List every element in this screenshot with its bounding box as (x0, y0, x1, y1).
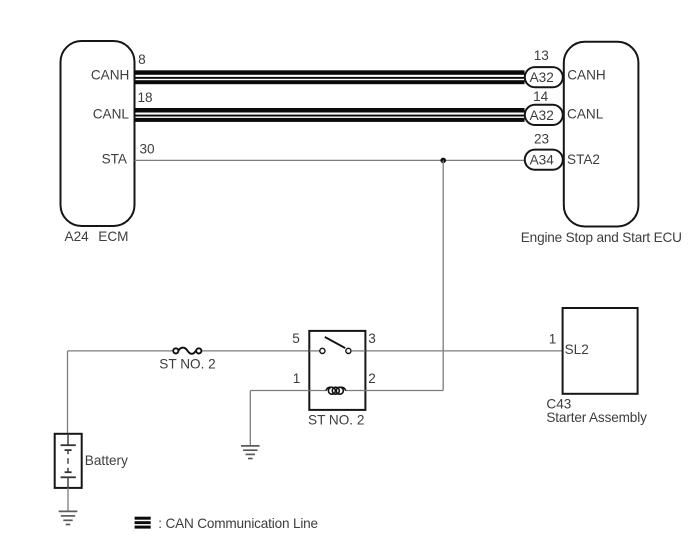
relay pin number 3 (368, 331, 376, 346)
legend text CAN Communication Line (158, 516, 318, 531)
svg-text:13: 13 (534, 48, 549, 63)
wire CANH (CAN communication line, triple stripe) (135, 70, 525, 84)
starter assembly box C43 (563, 308, 638, 394)
relay pin number 5 (292, 331, 300, 346)
connector oval A32 (CANL) (525, 105, 563, 125)
ground (relay coil) (241, 446, 260, 459)
pin label CANL (ECU) (567, 106, 604, 121)
relay switch wire stubs inside box (309, 350, 365, 352)
pin label STA (ECM) (102, 152, 128, 167)
svg-text:STA2: STA2 (567, 152, 600, 167)
pin number 1 (SL2) (549, 332, 557, 347)
relay pin number 1 (293, 371, 301, 386)
pin number 23 (534, 132, 549, 147)
wire battery to ground (67, 488, 69, 512)
ground (battery) (59, 511, 78, 524)
relay switch blade (open) (325, 337, 345, 348)
label ST NO. 2 (relay) (308, 413, 364, 428)
wire battery feed to fuse (horizontal) (68, 350, 175, 352)
label ECM (98, 229, 128, 244)
ECM box A24 (61, 41, 135, 226)
Engine Stop and Start ECU box (564, 42, 639, 227)
svg-text:A34: A34 (530, 153, 555, 168)
relay box ST NO. 2 (309, 331, 365, 410)
wire fuse feed down to battery (vertical) (67, 351, 69, 434)
svg-text:ST NO. 2: ST NO. 2 (308, 413, 364, 428)
label Starter Assembly (546, 410, 647, 425)
svg-text:CANL: CANL (567, 106, 604, 121)
relay switch contact right (346, 348, 351, 353)
connector oval A32 (CANH) (525, 67, 563, 87)
battery internal symbol (61, 434, 76, 488)
label Battery (85, 453, 128, 468)
svg-text:: CAN Communication Line: : CAN Communication Line (158, 516, 318, 531)
wire CANL (CAN communication line, triple stripe) (135, 108, 525, 122)
legend CAN symbol (135, 517, 151, 529)
svg-text:ECM: ECM (98, 229, 128, 244)
svg-text:Starter Assembly: Starter Assembly (546, 410, 647, 425)
svg-text:30: 30 (140, 142, 156, 157)
svg-text:Battery: Battery (85, 453, 128, 468)
svg-text:CANL: CANL (93, 106, 130, 121)
wire fuse to relay pin 5 (horizontal) (201, 350, 310, 352)
svg-text:CANH: CANH (91, 68, 130, 83)
wire relay coil pin 2 to junction line (horizontal) (365, 390, 443, 392)
svg-text:14: 14 (533, 89, 549, 104)
pin label STA2 (ECU) (567, 152, 600, 167)
svg-text:STA: STA (102, 152, 128, 167)
relay pin number 2 (368, 371, 376, 386)
pin label CANH (ECM) (91, 68, 130, 83)
label C43 (546, 396, 571, 411)
svg-text:18: 18 (138, 90, 153, 105)
svg-text:A32: A32 (530, 70, 554, 85)
svg-text:8: 8 (138, 52, 146, 67)
svg-text:2: 2 (368, 371, 376, 386)
pin label CANL (ECM) (93, 106, 130, 121)
fuse ST NO. 2 (173, 348, 201, 354)
relay switch contact left (320, 348, 325, 353)
wire junction to relay coil (vertical) (442, 160, 444, 390)
battery box (55, 434, 82, 488)
pin number 8 (138, 52, 146, 67)
svg-text:1: 1 (549, 332, 557, 347)
svg-text:ST NO. 2: ST NO. 2 (159, 357, 215, 372)
svg-text:1: 1 (293, 371, 301, 386)
pin label SL2 (565, 342, 589, 357)
pin label CANH (ECU) (567, 68, 606, 83)
pin number 18 (138, 90, 153, 105)
label A24 (65, 229, 90, 244)
wire relay coil pin 1 to ground (250, 391, 309, 446)
svg-text:23: 23 (534, 132, 549, 147)
svg-text:A24: A24 (65, 229, 90, 244)
label ST NO. 2 (fuse) (159, 357, 215, 372)
svg-text:3: 3 (368, 331, 376, 346)
pin number 14 (533, 89, 549, 104)
svg-text:A32: A32 (530, 108, 554, 123)
wire STA (ECM pin 30 to A34) (135, 159, 525, 161)
relay coil wire through box (309, 390, 365, 392)
svg-text:CANH: CANH (567, 68, 606, 83)
svg-text:5: 5 (292, 331, 300, 346)
junction node on STA wire (440, 158, 446, 164)
wire relay pin 3 to SL2 (horizontal) (365, 350, 562, 352)
connector oval A34 (STA2) (525, 150, 563, 170)
pin number 13 (534, 48, 549, 63)
pin number 30 (140, 142, 156, 157)
relay coil (326, 387, 346, 394)
svg-text:SL2: SL2 (565, 342, 589, 357)
svg-text:Engine Stop and Start ECU: Engine Stop and Start ECU (521, 230, 682, 245)
svg-text:C43: C43 (546, 396, 571, 411)
label Engine Stop and Start ECU (521, 230, 682, 245)
